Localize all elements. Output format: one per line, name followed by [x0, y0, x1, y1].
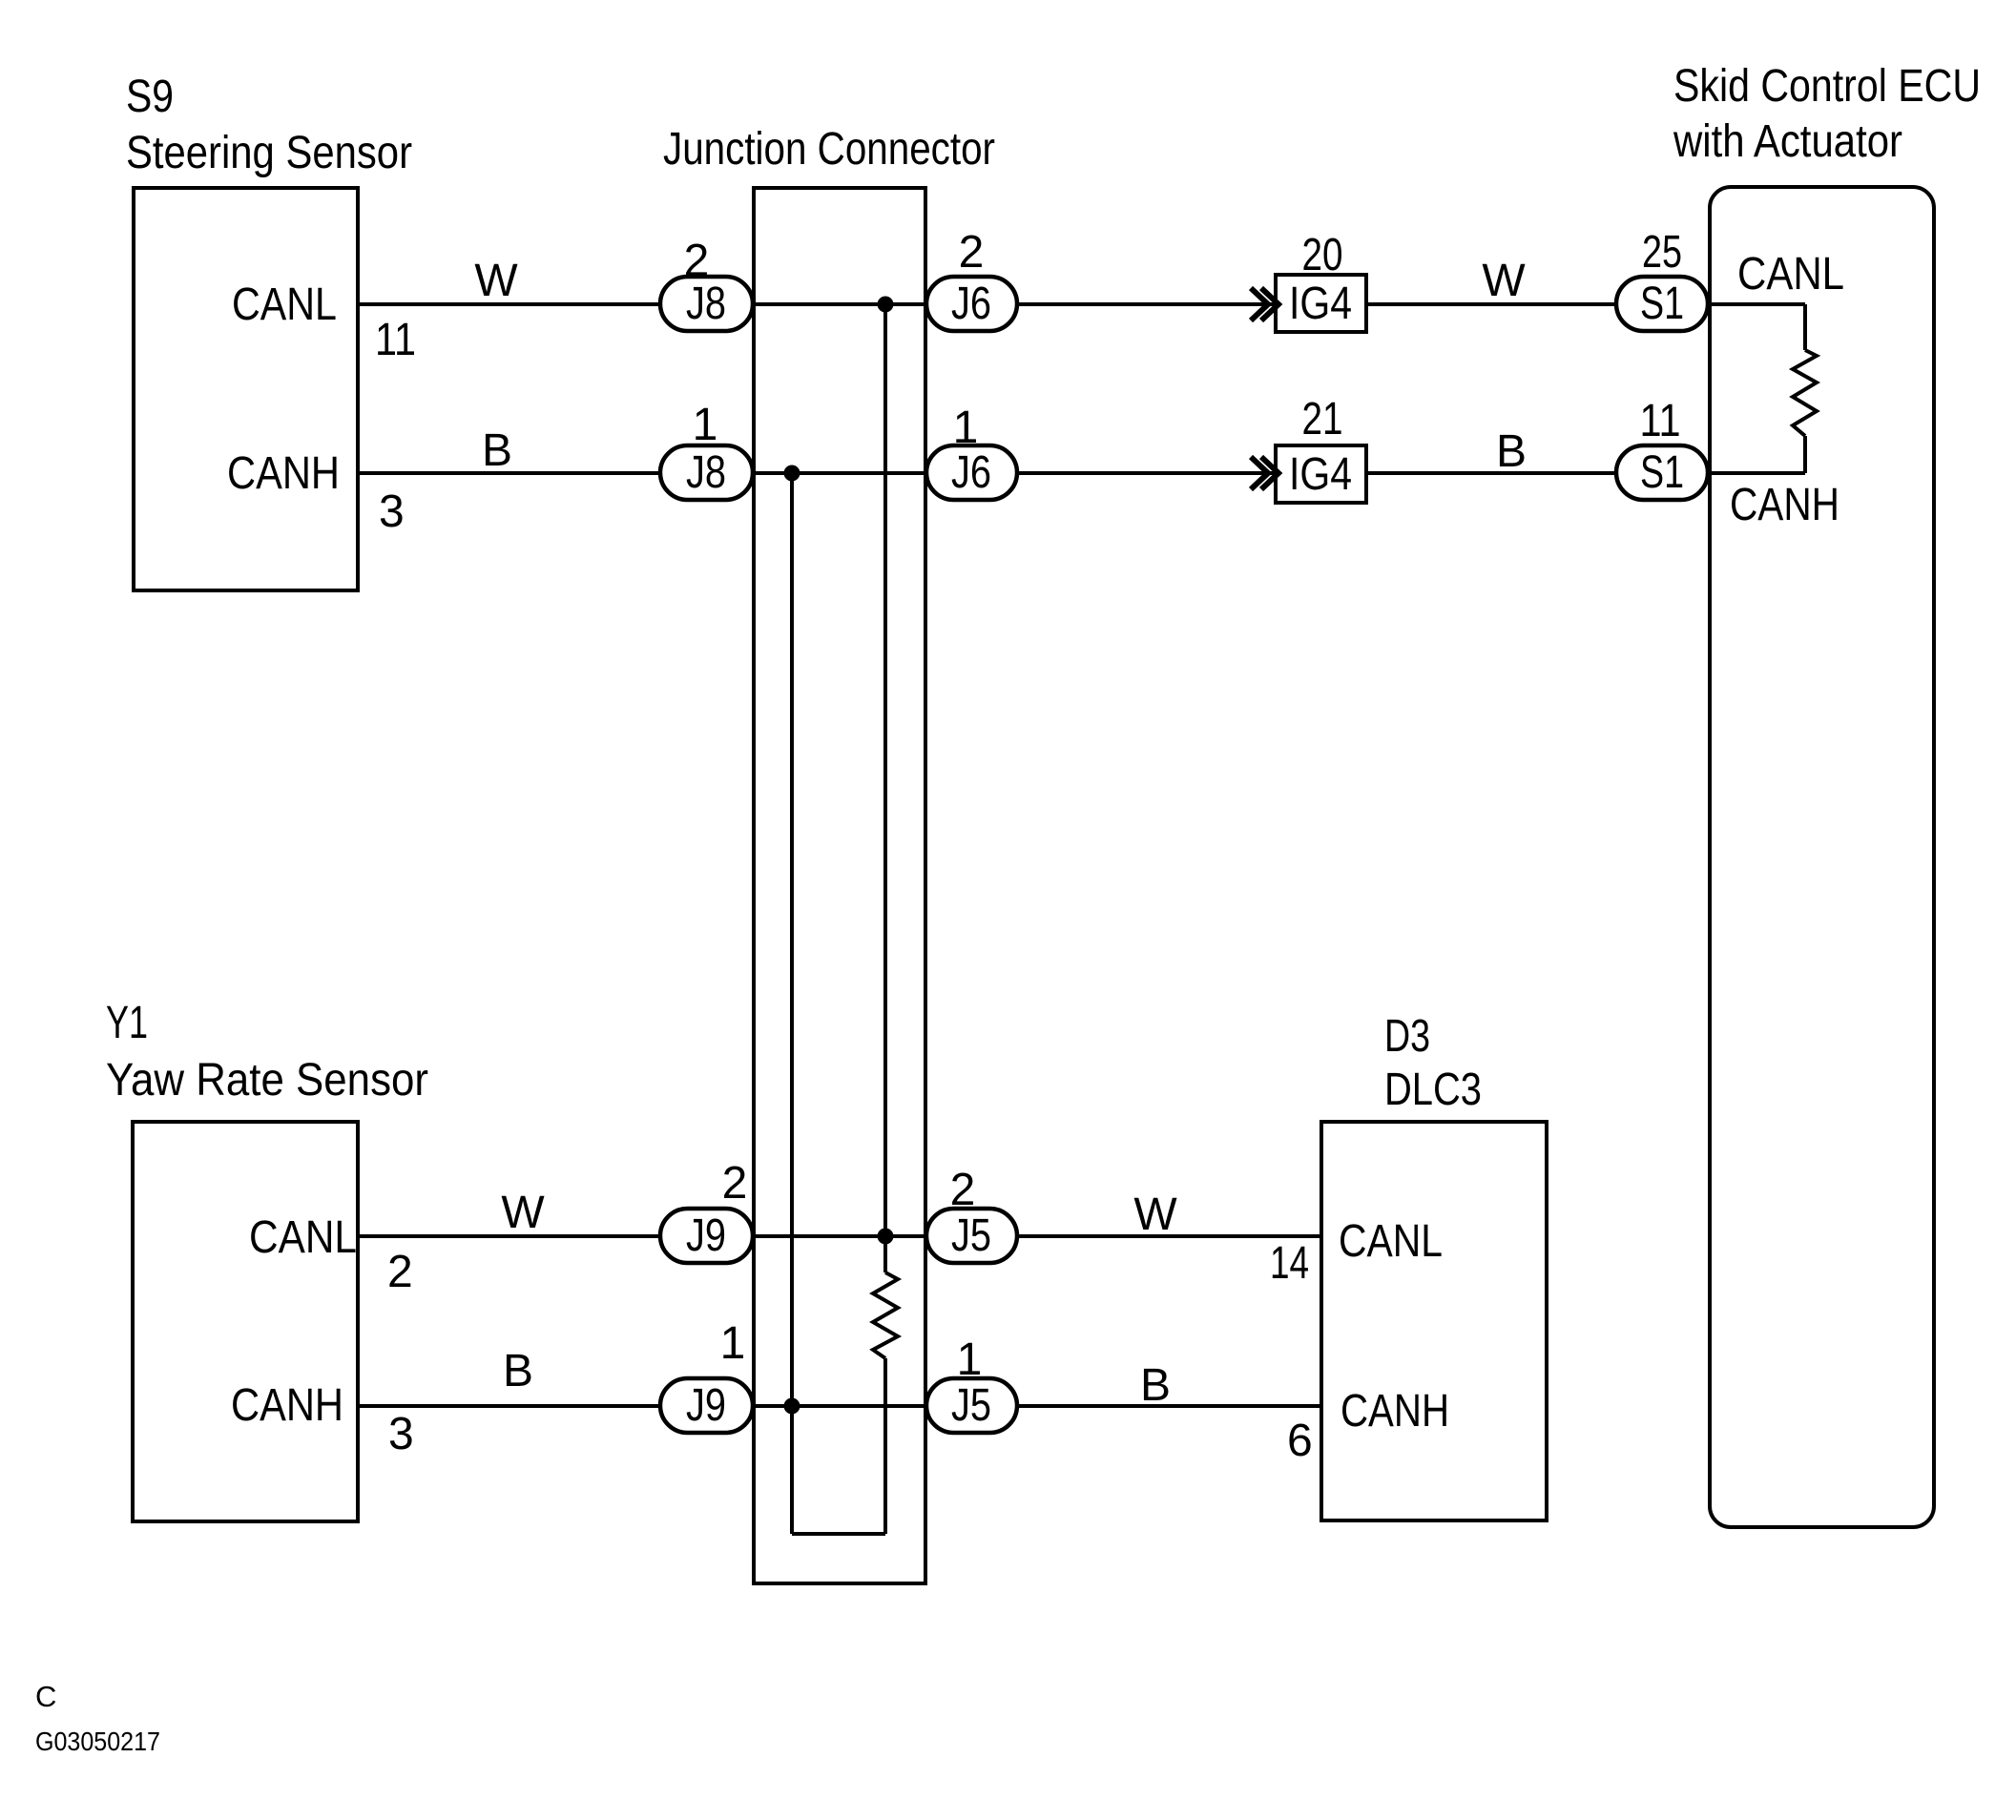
svg-text:Yaw Rate Sensor: Yaw Rate Sensor: [106, 1055, 428, 1106]
svg-text:CANH: CANH: [231, 1380, 343, 1431]
svg-text:3: 3: [388, 1409, 414, 1459]
svg-text:1: 1: [693, 400, 718, 450]
svg-text:21: 21: [1302, 394, 1343, 445]
resistor R1 terminating (junction connector): [873, 1272, 898, 1358]
wire S9 CANL to J8: [358, 302, 660, 306]
svg-text:IG4: IG4: [1289, 279, 1352, 329]
wire IG4 to S1 (CANH B): [1366, 471, 1616, 475]
connector J8 pin 1 oval: [660, 445, 753, 500]
junction connector box: [754, 188, 925, 1583]
wire S1 into ECU / internal CANH: [1708, 471, 1805, 475]
svg-text:S1: S1: [1640, 447, 1684, 498]
skid control ECU box: [1710, 187, 1934, 1527]
svg-text:DLC3: DLC3: [1384, 1065, 1482, 1115]
svg-text:J6: J6: [951, 447, 991, 498]
wire S9 CANH to J8: [358, 471, 660, 475]
svg-text:J5: J5: [951, 1380, 991, 1431]
svg-text:CANL: CANL: [232, 279, 337, 330]
svg-text:S9: S9: [126, 72, 174, 122]
svg-text:Skid Control ECU: Skid Control ECU: [1673, 61, 1981, 112]
wire Y1 CANH to J9: [358, 1404, 660, 1408]
svg-text:11: 11: [375, 315, 416, 365]
svg-text:S1: S1: [1640, 279, 1684, 329]
junction dot CANH/J9: [784, 1398, 800, 1415]
wire J6 to IG4 (CANH B): [1017, 471, 1276, 475]
svg-text:with Actuator: with Actuator: [1673, 116, 1902, 167]
svg-text:B: B: [1140, 1360, 1171, 1411]
svg-text:W: W: [474, 256, 518, 306]
connector J5 pin 2 oval: [926, 1209, 1017, 1263]
svg-text:1: 1: [720, 1318, 746, 1369]
svg-text:25: 25: [1642, 227, 1682, 278]
svg-text:IG4: IG4: [1289, 449, 1352, 500]
svg-text:CANL: CANL: [249, 1212, 357, 1263]
svg-text:6: 6: [1287, 1416, 1313, 1466]
splice chevron into IG4 (CANL): [1251, 288, 1278, 321]
wire bus vertical B upper (CANL branch in junction connector): [883, 304, 887, 1272]
svg-text:J9: J9: [686, 1380, 726, 1431]
svg-text:C: C: [35, 1680, 56, 1713]
wire Y1 CANL to J9: [358, 1234, 660, 1238]
splice chevron into IG4 (CANH): [1251, 457, 1278, 489]
wire J6 to IG4 (CANL W): [1017, 302, 1276, 306]
junction dot CANL/J6: [878, 297, 894, 313]
svg-text:D3: D3: [1384, 1011, 1430, 1062]
connector IG4 box pin 20: [1276, 275, 1366, 332]
svg-text:W: W: [1133, 1189, 1177, 1240]
wire bus bottom U: [792, 1532, 885, 1536]
connector J9 pin 2 oval: [660, 1209, 753, 1263]
wire J9 to J5 (CANL): [753, 1234, 926, 1238]
wire J5 to DLC3 CANL: [1017, 1234, 1321, 1238]
svg-text:20: 20: [1302, 230, 1343, 280]
wire J5 to DLC3 CANH: [1017, 1404, 1321, 1408]
DLC3 box: [1321, 1122, 1547, 1520]
junction dot CANL/J5: [878, 1229, 894, 1245]
connector S1 pin 25 oval: [1616, 277, 1708, 331]
junction dot CANH/J8: [784, 465, 800, 482]
svg-text:J5: J5: [951, 1210, 991, 1261]
svg-text:Steering Sensor: Steering Sensor: [126, 128, 412, 178]
svg-text:W: W: [501, 1188, 545, 1238]
svg-text:14: 14: [1270, 1238, 1309, 1289]
svg-text:3: 3: [379, 486, 405, 537]
wire bus vertical A (CANH branch in junction connector): [790, 473, 794, 1534]
svg-text:CANL: CANL: [1339, 1216, 1443, 1267]
svg-text:Junction Connector: Junction Connector: [663, 124, 995, 175]
svg-text:CANH: CANH: [227, 448, 340, 499]
resistor R2 terminating (skid control ECU): [1793, 350, 1817, 436]
svg-text:Y1: Y1: [106, 998, 148, 1048]
yaw rate sensor Y1 box: [133, 1122, 358, 1521]
wire J8 to J6 (CANL): [753, 302, 926, 306]
connector J5 pin 1 oval: [926, 1378, 1017, 1433]
svg-text:B: B: [1496, 426, 1527, 477]
wire J8 to J6 (CANH): [753, 471, 926, 475]
svg-text:2: 2: [684, 236, 710, 286]
connector S1 pin 11 oval: [1616, 445, 1708, 500]
connector J6 pin 2 oval: [926, 277, 1017, 331]
svg-text:CANH: CANH: [1341, 1386, 1449, 1437]
svg-text:J8: J8: [686, 447, 726, 498]
svg-text:1: 1: [953, 403, 979, 453]
wire ECU internal CANL drop: [1803, 304, 1807, 350]
svg-text:2: 2: [950, 1165, 976, 1215]
steering sensor S9 box: [134, 188, 358, 590]
wire IG4 to S1 (CANL W): [1366, 302, 1616, 306]
wire bus vertical B lower: [883, 1358, 887, 1534]
svg-text:CANL: CANL: [1737, 249, 1844, 300]
svg-text:J6: J6: [951, 279, 991, 329]
svg-text:G03050217: G03050217: [35, 1727, 160, 1756]
svg-text:2: 2: [959, 227, 985, 278]
svg-text:1: 1: [957, 1334, 983, 1385]
svg-text:B: B: [482, 425, 512, 476]
wire ECU internal CANH rise: [1803, 436, 1807, 473]
svg-text:11: 11: [1640, 396, 1681, 446]
svg-text:2: 2: [722, 1158, 748, 1209]
svg-text:2: 2: [387, 1247, 413, 1297]
wire S1 into ECU / internal CANL: [1708, 302, 1805, 306]
connector J9 pin 1 oval: [660, 1378, 753, 1433]
connector IG4 box pin 21: [1276, 445, 1366, 503]
svg-text:W: W: [1482, 256, 1526, 306]
svg-text:CANH: CANH: [1730, 480, 1839, 530]
connector J6 pin 1 oval: [926, 445, 1017, 500]
svg-text:J9: J9: [686, 1210, 726, 1261]
wire J9 to J5 (CANH): [753, 1404, 926, 1408]
svg-text:B: B: [503, 1346, 533, 1396]
connector J8 pin 2 oval: [660, 277, 753, 331]
